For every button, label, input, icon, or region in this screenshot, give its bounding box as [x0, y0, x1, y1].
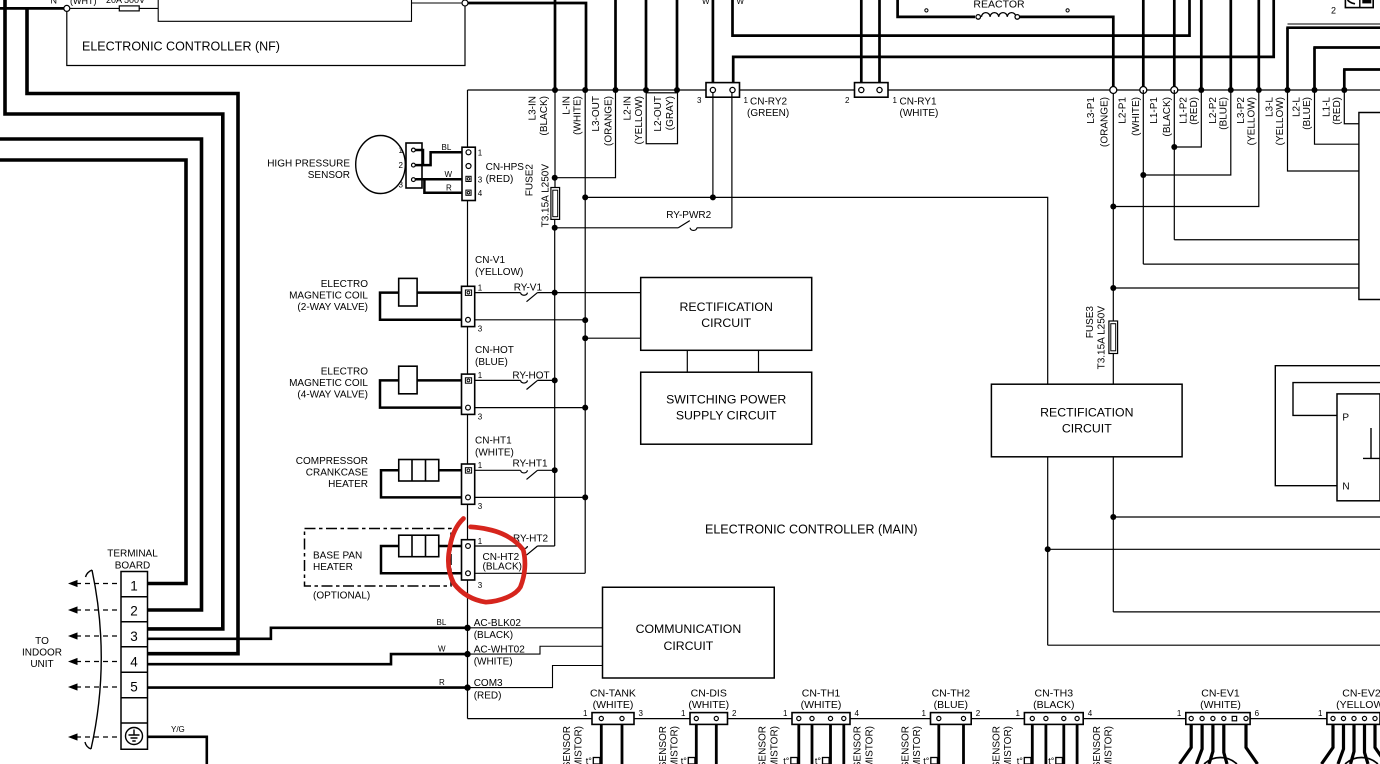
- terminal 3: [130, 629, 138, 644]
- svg-text:2: 2: [399, 161, 404, 170]
- label ELECTRO MAGNETIC COIL (2-WAY VALVE): [289, 279, 368, 313]
- wire AC-BLK02 to comm: [468, 627, 603, 629]
- svg-text:SENSOR: SENSOR: [658, 726, 669, 764]
- wire CN-HT2 pin3 row: [475, 572, 586, 574]
- wire rect-swps link1: [686, 350, 688, 372]
- node L3-P1 (open): [1110, 87, 1117, 94]
- label RY-V1: [514, 283, 543, 294]
- label FUSE3: [1085, 306, 1108, 370]
- label L2-P1 (WHITE): [1117, 97, 1142, 136]
- connector CN-V1: [462, 286, 475, 326]
- svg-text:t°: t°: [783, 756, 790, 764]
- label L2-L (BLUE): [1292, 97, 1313, 130]
- node COM3: [464, 684, 470, 690]
- coil 2-way valve: [399, 278, 417, 306]
- svg-text:1: 1: [1015, 709, 1020, 718]
- label RY-HOT: [512, 370, 549, 381]
- label FUSE2: [525, 164, 552, 228]
- svg-text:t°: t°: [815, 756, 822, 764]
- svg-text:SENSOR: SENSOR: [900, 726, 911, 764]
- svg-text:BASE PAN: BASE PAN: [313, 551, 362, 562]
- node pin3/L-IN rail: [710, 194, 716, 200]
- label RY-HT1: [513, 459, 548, 470]
- svg-text:CIRCUIT: CIRCUIT: [663, 639, 713, 653]
- svg-text:CN-DIS: CN-DIS: [691, 688, 727, 700]
- svg-text:2: 2: [1331, 6, 1336, 16]
- wire inverter N loop: [1275, 366, 1380, 486]
- connector CN-RY2: [706, 83, 740, 98]
- svg-text:UNIT: UNIT: [30, 659, 53, 670]
- label (OPTIONAL): [313, 591, 370, 602]
- svg-text:1: 1: [478, 537, 483, 546]
- box COMMUNICATION CIRCUIT: [603, 587, 775, 678]
- label ELECTRONIC CONTROLLER (MAIN): [705, 523, 918, 537]
- svg-text:(GREEN): (GREEN): [747, 108, 789, 119]
- wire L3-P1 to inverter: [1113, 287, 1359, 289]
- svg-text:RY-HOT: RY-HOT: [512, 370, 549, 381]
- pin CN-HT1 3: [466, 495, 471, 500]
- terminal 1: [130, 579, 138, 594]
- label RECTIFICATION CIRCUIT: [680, 300, 773, 330]
- pin number 1: [478, 283, 483, 292]
- label CN-HT1 (WHITE): [475, 436, 514, 459]
- svg-text:COMPRESSOR: COMPRESSOR: [296, 456, 368, 467]
- wire N supply (thick, from left edge): [0, 7, 64, 10]
- svg-text:HEATER: HEATER: [328, 479, 368, 490]
- wire N to fuse1: [70, 7, 119, 9]
- wire relay column: [554, 219, 556, 546]
- svg-text:3: 3: [478, 412, 483, 421]
- svg-text:Y/G: Y/G: [171, 725, 185, 734]
- svg-text:(WHT): (WHT): [70, 0, 97, 6]
- svg-text:(YELLOW): (YELLOW): [475, 267, 523, 278]
- svg-text:(YELLOW): (YELLOW): [1246, 97, 1257, 145]
- pin CN-RY1 2: [859, 87, 864, 92]
- reactor coil: [976, 13, 1020, 20]
- pin number 2: [845, 96, 850, 105]
- label RECTIFICATION CIRCUIT 2: [1040, 406, 1133, 436]
- svg-text:ELECTRO: ELECTRO: [321, 367, 368, 378]
- node pin3/L-IN: [582, 405, 588, 411]
- svg-text:CN-HOT: CN-HOT: [475, 345, 514, 356]
- svg-text:RY-HT1: RY-HT1: [513, 459, 548, 470]
- pin CN-RY1 1: [877, 87, 882, 92]
- svg-text:(BLUE): (BLUE): [1302, 97, 1313, 130]
- svg-text:SENSOR: SENSOR: [562, 726, 573, 764]
- wire out left to edge: [1048, 644, 1380, 646]
- label RY-PWR2: [666, 210, 711, 221]
- label L3-P1 (ORANGE): [1086, 97, 1110, 147]
- node L-IN stub: [582, 335, 588, 341]
- svg-text:1: 1: [1318, 709, 1323, 718]
- svg-text:MAGNETIC COIL: MAGNETIC COIL: [289, 291, 368, 302]
- node fuse2 bottom: [552, 225, 558, 231]
- connector CN-HOT: [462, 374, 475, 414]
- connector top right (cut): [1345, 0, 1373, 8]
- label N: [51, 0, 58, 6]
- pin number 3: [697, 96, 702, 105]
- svg-text:(YELLOW): (YELLOW): [1275, 97, 1286, 145]
- svg-text:4: 4: [478, 189, 483, 198]
- node pin3/L-IN: [582, 317, 588, 323]
- svg-text:HIGH PRESSURE: HIGH PRESSURE: [267, 159, 350, 170]
- wire BL: [415, 150, 466, 165]
- svg-text:1: 1: [1177, 709, 1182, 718]
- label AC-WHT02 (WHITE): [474, 644, 526, 667]
- wire Y/G ground: [148, 737, 207, 764]
- pin number 2: [399, 161, 404, 170]
- svg-text:1: 1: [478, 461, 483, 470]
- label COMPRESSOR CRANKCASE HEATER: [296, 456, 369, 490]
- svg-text:(RED): (RED): [474, 690, 502, 701]
- svg-text:3: 3: [478, 175, 483, 184]
- svg-text:(ORANGE): (ORANGE): [603, 96, 614, 146]
- svg-text:2: 2: [732, 709, 737, 718]
- heater BASE PAN HEATER: [399, 535, 439, 557]
- wire COM3 to comm: [468, 666, 603, 688]
- box RECTIFICATION CIRCUIT: [641, 278, 812, 351]
- svg-text:CN-TH3: CN-TH3: [1035, 688, 1074, 700]
- node L1-P1 (open): [1171, 87, 1178, 94]
- svg-text:(RED): (RED): [1332, 97, 1343, 125]
- box power module P/N: [1337, 394, 1380, 501]
- wire L3-P2 (thick): [1257, 0, 1260, 88]
- wire terminal4 to AC-WHT02: [148, 654, 466, 664]
- pin number 1: [744, 96, 749, 105]
- label BASE PAN HEATER: [313, 551, 362, 574]
- svg-text:1: 1: [583, 709, 588, 718]
- wire L to L-IN: [468, 3, 586, 90]
- svg-text:(BLACK): (BLACK): [1162, 97, 1173, 136]
- svg-text:1: 1: [893, 96, 898, 105]
- pin number 1: [478, 371, 483, 380]
- pin CN-HOT 1: [465, 378, 471, 383]
- svg-text:TO: TO: [35, 636, 49, 647]
- relay RY-HT1 line: [475, 470, 555, 479]
- label ELECTRO MAGNETIC COIL (4-WAY VALVE): [289, 367, 368, 401]
- node L1-P1/L1-P2 junction: [1171, 144, 1177, 150]
- pin number 1: [399, 146, 404, 155]
- svg-text:3: 3: [697, 96, 702, 105]
- svg-text:4: 4: [130, 655, 138, 670]
- svg-text:BOARD: BOARD: [115, 561, 151, 572]
- pin marker o left: [925, 9, 928, 12]
- svg-text:L3-IN: L3-IN: [527, 96, 538, 120]
- svg-text:3: 3: [639, 709, 644, 718]
- svg-text:(BLUE): (BLUE): [1218, 97, 1229, 130]
- svg-text:R: R: [446, 184, 452, 193]
- label L1-L (RED): [1322, 97, 1343, 125]
- label REACTOR: [973, 0, 1025, 11]
- terminal board: [121, 572, 148, 750]
- label CN-HOT (BLUE): [475, 345, 514, 368]
- wire branch right 549: [1048, 548, 1380, 550]
- wire fuse3 to rectifier2: [1112, 354, 1114, 385]
- wire RY-PWR2 to CN-RY2 pin1: [731, 92, 733, 228]
- wire L-IN rail to rectifier2: [585, 197, 1047, 384]
- svg-text:AC-BLK02: AC-BLK02: [474, 618, 522, 629]
- connector CN-TANK (WHITE): [583, 688, 643, 764]
- svg-text:(WHITE): (WHITE): [688, 699, 729, 711]
- svg-text:ELECTRONIC CONTROLLER (MAIN): ELECTRONIC CONTROLLER (MAIN): [705, 523, 918, 537]
- wire L3-IN (thick): [554, 0, 557, 90]
- fuse FUSE2: [551, 188, 560, 220]
- connector CN-HT1: [462, 464, 475, 504]
- svg-text:W: W: [737, 0, 745, 6]
- svg-text:(BLACK): (BLACK): [483, 562, 522, 573]
- wire L3-OUT jog: [555, 90, 616, 178]
- svg-text:CN-HPS: CN-HPS: [486, 162, 525, 173]
- label L3-OUT (ORANGE): [591, 96, 614, 146]
- svg-text:(THERMISTOR): (THERMISTOR): [669, 726, 680, 764]
- wire CN-HOT pin3 row: [475, 407, 586, 409]
- node L2-L: [1312, 87, 1318, 93]
- wire reactor left: [898, 0, 975, 17]
- svg-text:(OPTIONAL): (OPTIONAL): [313, 591, 370, 602]
- svg-text:CIRCUIT: CIRCUIT: [701, 316, 751, 330]
- wire L2-IN (thick): [645, 0, 648, 90]
- terminal 2: [130, 604, 138, 619]
- svg-text:(THERMISTOR): (THERMISTOR): [1003, 726, 1014, 764]
- svg-text:5: 5: [130, 680, 138, 695]
- label CN-RY1 (WHITE): [900, 97, 939, 120]
- ground terminal: [126, 728, 143, 745]
- cable to terminal 3 (stair): [5, 0, 223, 629]
- pin CN-HT1 1: [465, 468, 471, 473]
- node L3-IN: [552, 87, 558, 93]
- pin sensor 3: [412, 178, 416, 182]
- svg-text:CN-RY1: CN-RY1: [900, 97, 937, 108]
- svg-text:3: 3: [478, 502, 483, 511]
- wire L2-OUT (thick): [676, 0, 679, 90]
- pin CN-HPS 1: [466, 150, 471, 155]
- label L3-P2 (YELLOW): [1236, 97, 1257, 146]
- terminal 5: [130, 680, 138, 695]
- svg-text:SENSOR: SENSOR: [853, 726, 864, 764]
- node pin3/L-IN: [582, 494, 588, 500]
- svg-text:(2-WAY VALVE): (2-WAY VALVE): [297, 302, 368, 313]
- wire L-IN column: [584, 90, 586, 573]
- svg-text:4: 4: [1088, 709, 1093, 718]
- node L1-L: [1341, 87, 1347, 93]
- svg-text:(BLACK): (BLACK): [1033, 699, 1074, 711]
- node RY-V1: [552, 290, 558, 296]
- pin number 1: [893, 96, 898, 105]
- svg-text:(WHITE): (WHITE): [1131, 97, 1142, 136]
- wire rect2 out left: [1047, 457, 1049, 645]
- label L2-P2 (BLUE): [1208, 97, 1229, 130]
- svg-text:L3-OUT: L3-OUT: [591, 96, 602, 132]
- wire W loop: [733, 0, 1190, 36]
- wire reactor to L3-P1: [1020, 17, 1114, 87]
- cable to terminal 2 (stair): [0, 139, 202, 610]
- svg-text:t°: t°: [1048, 756, 1055, 764]
- label TERMINAL BOARD: [107, 549, 158, 572]
- svg-text:SENSOR: SENSOR: [308, 170, 350, 181]
- svg-text:BL: BL: [437, 618, 447, 627]
- pin CN-HPS 4: [466, 190, 471, 195]
- wire branch right 517: [1113, 516, 1380, 518]
- wire L1-P1 (thick): [1173, 0, 1176, 87]
- svg-text:t°: t°: [923, 756, 930, 764]
- heater COMPRESSOR CRANKCASE HEATER: [399, 460, 439, 482]
- node L2-P1 (open): [1140, 87, 1147, 94]
- connector CN-HPS: [462, 147, 475, 200]
- label COM3 (RED): [474, 678, 503, 701]
- pin CN-HPS 2: [466, 164, 471, 169]
- node fuse2 top: [552, 175, 558, 181]
- svg-text:COMMUNICATION: COMMUNICATION: [636, 622, 742, 636]
- pin CN-HOT 3: [466, 405, 471, 410]
- svg-text:(RED): (RED): [1189, 97, 1200, 125]
- svg-text:TERMINAL: TERMINAL: [107, 549, 158, 560]
- node L3-P2: [1256, 87, 1262, 93]
- label W left: [702, 0, 710, 6]
- box RECTIFICATION CIRCUIT 2: [991, 384, 1182, 457]
- node rect2 left branch: [1045, 546, 1051, 552]
- svg-text:3: 3: [130, 629, 138, 644]
- wire L2-P1 (thick): [1142, 0, 1145, 87]
- label SWITCHING POWER SUPPLY CIRCUIT: [666, 393, 786, 423]
- cable to terminal 1 (stair): [0, 160, 186, 584]
- label CN-HT2 (BLACK): [483, 552, 522, 573]
- wire L3-P1 down: [1112, 93, 1114, 321]
- svg-text:MAGNETIC COIL: MAGNETIC COIL: [289, 378, 368, 389]
- connector CN-HT2: [462, 540, 475, 580]
- label HIGH PRESSURE SENSOR: [267, 159, 350, 182]
- svg-text:RY-PWR2: RY-PWR2: [666, 210, 711, 221]
- wire L3-OUT (thick): [614, 0, 617, 90]
- pin number 3: [478, 325, 483, 334]
- node L2-IN: [643, 87, 649, 93]
- connector CN-EV2 (YELLOW) + valve motor: [1318, 688, 1380, 764]
- svg-text:COM3: COM3: [474, 678, 503, 689]
- coil 4-way valve wiring: [380, 380, 462, 407]
- pin number 3: [399, 181, 404, 190]
- wire AC-WHT02 to comm: [468, 646, 603, 654]
- label R: [446, 184, 452, 193]
- pin number 3: [478, 412, 483, 421]
- svg-text:(THERMISTOR): (THERMISTOR): [864, 726, 875, 764]
- svg-text:W: W: [438, 645, 446, 654]
- svg-text:L1-P1: L1-P1: [1149, 97, 1160, 124]
- svg-text:L2-IN: L2-IN: [623, 96, 634, 120]
- svg-text:1: 1: [681, 709, 686, 718]
- svg-text:SENSOR: SENSOR: [1092, 726, 1103, 764]
- label W: [445, 170, 453, 179]
- node rect2 right branch: [1110, 514, 1116, 520]
- wire rect2 out right: [1112, 457, 1114, 612]
- label L3-L (YELLOW): [1265, 97, 1286, 146]
- svg-text:1: 1: [922, 709, 927, 718]
- svg-text:2: 2: [976, 709, 981, 718]
- pin CN-HT2 3: [466, 571, 471, 576]
- svg-text:R: R: [439, 678, 445, 687]
- wire CN-V1 pin3 row: [475, 319, 586, 321]
- bottom sensor bus: [468, 718, 1380, 720]
- node L2-OUT: [674, 87, 680, 93]
- svg-text:ELECTRO: ELECTRO: [321, 279, 368, 290]
- svg-text:RECTIFICATION: RECTIFICATION: [680, 300, 773, 314]
- wire L1-P2 jumper: [1174, 90, 1201, 147]
- pin number 1: [478, 461, 483, 470]
- fuse F1 20A 500V: [119, 6, 158, 11]
- box top inner (cut): [158, 0, 411, 21]
- arrows to indoor unit: [68, 580, 119, 741]
- annotation red circle around CN-HT2: [448, 519, 525, 603]
- wire L1-P1 down: [1173, 90, 1175, 240]
- label BL: [437, 618, 447, 627]
- svg-text:(WHITE): (WHITE): [475, 448, 514, 459]
- wire stub to rectifier: [585, 337, 641, 339]
- label CN-HPS (RED): [486, 162, 525, 185]
- wire L2-P2 jumper: [1143, 90, 1231, 175]
- node L1-P2: [1198, 87, 1204, 93]
- box MAIN left edge: [467, 90, 469, 719]
- label CN-RY2 (GREEN): [747, 97, 789, 120]
- connector CN-TH2 (BLUE): [922, 688, 981, 764]
- fuse FUSE3: [1109, 321, 1118, 354]
- svg-text:N: N: [1342, 482, 1349, 493]
- pin CN-RY2 1: [730, 87, 735, 92]
- relay RY-PWR2: [555, 221, 732, 231]
- wire W: [415, 178, 466, 181]
- node L3-OUT: [613, 87, 619, 93]
- svg-text:CRANKCASE: CRANKCASE: [306, 468, 369, 479]
- wire L-IN return: [584, 572, 586, 574]
- svg-text:(THERMISTOR): (THERMISTOR): [769, 726, 780, 764]
- pin CN-V1 1: [465, 290, 471, 295]
- cable sheath arc: [85, 570, 101, 749]
- node L2-P1/L2-P2 junction: [1140, 172, 1146, 178]
- pin CN-HT2 1: [466, 544, 471, 549]
- svg-text:(GRAY): (GRAY): [665, 96, 676, 130]
- thermistor symbols t: [586, 756, 1063, 764]
- label L1-P2 (RED): [1179, 97, 1200, 125]
- svg-text:CN-HT1: CN-HT1: [475, 436, 512, 447]
- node AC-WHT02: [464, 651, 470, 657]
- box inverter (right edge, cut): [1359, 113, 1380, 300]
- pin number 3: [478, 502, 483, 511]
- wire terminal5 to COM3: [148, 686, 466, 689]
- wire L2-P1 down: [1142, 90, 1144, 264]
- svg-text:20A 500V: 20A 500V: [106, 0, 145, 5]
- pin marker o right: [1066, 9, 1069, 12]
- svg-text:L2-P1: L2-P1: [1117, 97, 1128, 124]
- connector CN-EV1 (WHITE) + valve motor: [1177, 688, 1260, 764]
- wire CN-HT1 pin3 row: [475, 496, 586, 498]
- svg-text:CN-EV2: CN-EV2: [1342, 688, 1380, 700]
- label TO INDOOR UNIT: [22, 636, 62, 670]
- wire L1-L down: [1344, 90, 1359, 124]
- svg-text:(WHITE): (WHITE): [593, 699, 634, 711]
- svg-text:SUPPLY CIRCUIT: SUPPLY CIRCUIT: [676, 409, 777, 423]
- pin sensor 1: [412, 148, 416, 152]
- node L-IN: [582, 87, 588, 93]
- svg-text:(BLACK): (BLACK): [539, 96, 550, 135]
- terminal P: [1342, 413, 1349, 424]
- label (WHT): [70, 0, 97, 6]
- svg-text:L2-OUT: L2-OUT: [653, 96, 664, 132]
- svg-text:1: 1: [744, 96, 749, 105]
- svg-text:(BLUE): (BLUE): [475, 357, 508, 368]
- svg-text:1: 1: [478, 371, 483, 380]
- svg-text:(YELLOW): (YELLOW): [1336, 699, 1380, 711]
- connector CN-TH3 (BLACK): [1015, 688, 1092, 764]
- relay RY-V1 line: [475, 293, 641, 302]
- svg-text:2: 2: [845, 96, 850, 105]
- svg-text:CN-TH1: CN-TH1: [802, 688, 841, 700]
